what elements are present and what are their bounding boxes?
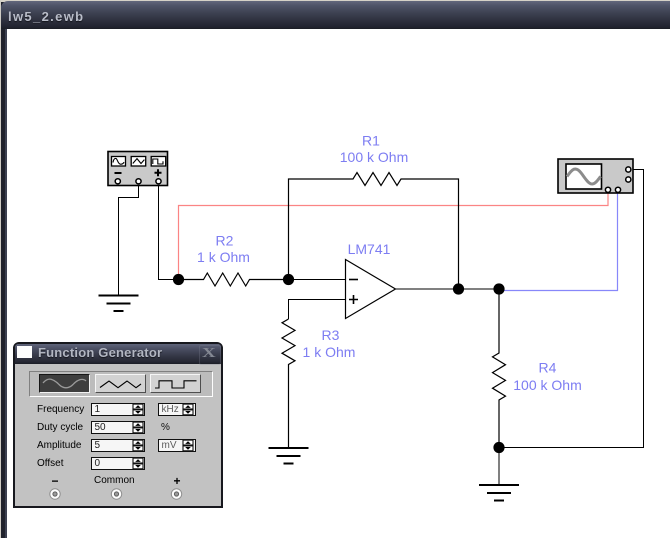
label R2 value (197, 233, 250, 266)
svg-text:R1: R1 (362, 133, 380, 149)
dialog title bar (15, 344, 221, 364)
wire: oscilloscope ground terminal to node E (499, 170, 644, 448)
resistor R1 (feedback) with wires (289, 173, 459, 290)
dialog icon (17, 346, 32, 358)
top beige strip (0, 0, 670, 2)
plus terminal label (167, 474, 187, 486)
main title bar (1, 1, 670, 29)
waveform selector panel (29, 371, 213, 397)
blue wire: output node to oscilloscope channel B (499, 193, 618, 291)
svg-text:R4: R4 (539, 360, 557, 376)
label R1 value (340, 133, 408, 166)
label LM741 (348, 241, 391, 257)
ground (R3) (269, 448, 309, 464)
svg-text:100 k Ohm: 100 k Ohm (513, 377, 581, 393)
wire: function generator common to ground (119, 185, 139, 296)
node C (output node) (453, 283, 464, 294)
minus terminal label (45, 474, 65, 486)
amplitude unit (158, 439, 196, 452)
dialog close button X (199, 345, 221, 365)
wire: op-amp output to node C and node D (396, 288, 500, 290)
svg-text:LM741: LM741 (348, 241, 391, 257)
wire: op-amp non-inverting input to R3 (289, 300, 346, 320)
amplitude row (37, 438, 97, 453)
terminal radio buttons (15, 484, 222, 506)
oscilloscope instrument icon (558, 159, 633, 193)
Function Generator dialog window (13, 342, 223, 508)
frequency unit (158, 403, 196, 416)
svg-text:R2: R2 (216, 233, 234, 249)
common terminal label (94, 475, 134, 487)
resistor R2 (179, 273, 289, 286)
svg-text:R3: R3 (322, 327, 340, 343)
sine button (selected) (39, 374, 90, 393)
svg-text:1 k Ohm: 1 k Ohm (303, 344, 356, 360)
node B (inverting input node) (283, 274, 294, 285)
resistor R4 (493, 289, 506, 448)
wire: node B to op-amp inverting input (289, 279, 346, 281)
ground (function generator) (99, 296, 139, 312)
duty cycle row (37, 420, 97, 435)
main title text (8, 9, 84, 24)
left dark window border (1, 2, 7, 538)
offset row (37, 456, 97, 471)
svg-text:100 k Ohm: 100 k Ohm (340, 149, 408, 165)
frequency row (37, 402, 97, 417)
node A (input node) (173, 274, 184, 285)
wire: node E to ground (498, 448, 500, 486)
triangle button (95, 374, 146, 393)
ground (R4) (479, 485, 519, 501)
op-amp U1 LM741 (346, 260, 396, 319)
left beige line (0, 0, 1, 538)
label R3 value (303, 327, 356, 360)
node D (R4 top node) (493, 283, 504, 294)
node E (R4 bottom node) (493, 442, 504, 453)
dialog title text (38, 345, 162, 360)
square button (150, 374, 201, 393)
label R4 value (513, 360, 581, 394)
resistor R3 (282, 319, 295, 448)
red wire: input node to oscilloscope channel A (179, 193, 609, 280)
function generator instrument icon (108, 152, 168, 186)
wire: function generator + output to input node (159, 185, 179, 280)
svg-text:1 k Ohm: 1 k Ohm (197, 249, 250, 265)
